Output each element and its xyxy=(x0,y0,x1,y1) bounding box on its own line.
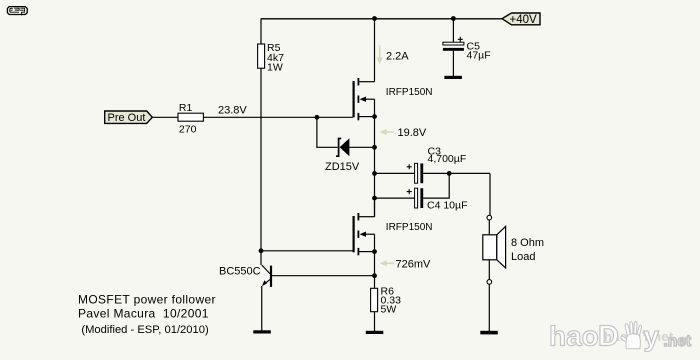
ESP logo xyxy=(7,7,27,15)
svg-text:1W: 1W xyxy=(267,62,283,74)
wire terminal to ground xyxy=(488,284,490,331)
wire R5 top lead xyxy=(260,19,262,45)
wire to C4 xyxy=(375,197,415,199)
junction output node xyxy=(447,171,452,176)
wire BC550C base to R6 node xyxy=(272,275,375,277)
svg-text:19.8V: 19.8V xyxy=(398,127,427,139)
terminal (speaker top) xyxy=(487,215,492,220)
wire zener anode to source rail xyxy=(349,146,374,148)
mosfet Q2 IRFP150N xyxy=(354,213,375,255)
svg-text:8 Ohm: 8 Ohm xyxy=(511,237,544,249)
zener ZD15V xyxy=(325,138,360,173)
junction Q2 source xyxy=(372,249,377,254)
junction Q1 drain / rail xyxy=(372,16,377,21)
svg-text:Load: Load xyxy=(511,251,535,263)
svg-text:BC550C: BC550C xyxy=(219,266,261,278)
wire +40V rail xyxy=(261,18,502,20)
junction Q2 gate / R5 line xyxy=(259,248,264,253)
resistor R5 xyxy=(258,42,284,74)
svg-text:IRFP150N: IRFP150N xyxy=(386,222,433,233)
svg-text:270: 270 xyxy=(179,124,197,136)
capacitor C3 xyxy=(407,145,467,183)
watermark haoDIY.net xyxy=(549,321,691,353)
junction R6 top node xyxy=(372,273,377,278)
title text xyxy=(78,293,216,337)
junction C3 / source rail xyxy=(372,171,377,176)
svg-text:47µF: 47µF xyxy=(467,50,491,62)
current annotation 2.2A xyxy=(377,45,410,64)
wire speaker to bottom terminal xyxy=(488,260,490,280)
capacitor C4 xyxy=(407,188,468,211)
wire R1 to Q1 gate xyxy=(203,116,353,118)
ground (speaker) xyxy=(480,331,498,335)
wire R5 bottom to BC550C collector xyxy=(260,68,262,265)
svg-text:23.8V: 23.8V xyxy=(218,104,247,116)
wire R6 bottom lead xyxy=(374,312,376,331)
ground (BC550C emitter) xyxy=(253,330,270,333)
junction Q1 source xyxy=(372,114,377,119)
wire BC550C emitter down xyxy=(261,286,263,331)
power tag +40V xyxy=(502,13,540,26)
svg-text:D: D xyxy=(598,321,619,353)
wire gate node down to zener xyxy=(317,117,338,147)
junction zener / source rail xyxy=(372,145,377,150)
junction C4 / source rail xyxy=(372,196,377,201)
svg-text:2.2A: 2.2A xyxy=(386,51,409,63)
terminal (speaker bottom) xyxy=(487,280,492,285)
wire C4 up to output node xyxy=(423,173,449,198)
resistor R1 xyxy=(178,102,203,136)
svg-text:+40V: +40V xyxy=(510,14,538,26)
svg-text:.net: .net xyxy=(664,333,692,350)
resistor R6 xyxy=(371,285,401,315)
voltage annotation 19.8V xyxy=(380,127,427,139)
wire R6 top lead xyxy=(374,276,376,289)
junction C5 / rail xyxy=(451,16,456,21)
svg-text:y: y xyxy=(644,321,660,352)
svg-text:hao: hao xyxy=(549,321,599,352)
wire Q2 source to R6 node xyxy=(374,252,376,276)
speaker 8 Ohm Load xyxy=(483,226,544,268)
svg-text:Pavel Macura 10/2001: Pavel Macura 10/2001 xyxy=(78,307,209,321)
wire output to speaker xyxy=(489,173,491,215)
svg-text:C4 10µF: C4 10µF xyxy=(427,200,467,212)
capacitor C5 xyxy=(443,19,491,77)
ground (R6) xyxy=(366,331,384,334)
wire Q1 source down through nodes xyxy=(374,117,376,217)
wire C3 to output node xyxy=(423,172,490,174)
svg-text:MOSFET power follower: MOSFET power follower xyxy=(78,293,216,307)
svg-text:IRFP150N: IRFP150N xyxy=(386,87,433,98)
svg-text:5W: 5W xyxy=(381,304,397,316)
wire terminal to speaker xyxy=(488,220,490,235)
svg-text:(Modified - ESP, 01/2010): (Modified - ESP, 01/2010) xyxy=(81,324,209,336)
wire to C3 xyxy=(375,172,415,174)
svg-text:4,700µF: 4,700µF xyxy=(428,153,467,165)
svg-text:726mV: 726mV xyxy=(396,259,432,271)
input tag Pre Out xyxy=(105,111,153,124)
junction gate node to zener xyxy=(315,115,320,120)
voltage annotation 726mV xyxy=(380,259,431,271)
wire Q1 drain xyxy=(374,19,376,82)
svg-text:Pre Out: Pre Out xyxy=(108,112,146,124)
svg-text:ZD15V: ZD15V xyxy=(325,161,360,173)
ground (C5) xyxy=(444,76,462,79)
wire Q2 gate lead xyxy=(261,250,353,252)
transistor BC550C xyxy=(219,265,271,287)
mosfet Q1 IRFP150N xyxy=(354,78,375,120)
svg-text:R1: R1 xyxy=(179,102,193,114)
wire Pre Out to R1 xyxy=(152,116,178,118)
wire Q2 drain xyxy=(374,198,376,217)
